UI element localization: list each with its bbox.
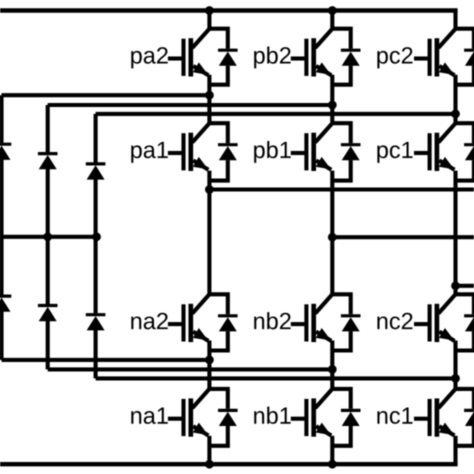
IGBT nc1 [439,389,455,407]
clamp line lower-c [96,376,456,380]
diode Dpb1 (antiparallel) [332,123,350,143]
label pa2 [131,51,142,69]
node: N rail / leg b [328,460,337,469]
diode Dpc1 (antiparallel) [456,123,474,143]
clamp branch 2 lower clamp diode [38,304,58,307]
diode Dpb2 (antiparallel) [332,29,350,49]
diode Dpa2 (antiparallel) [209,29,227,49]
IGBT pa1 [193,123,209,141]
IGBT pb2 [316,29,332,47]
label nb2 [254,316,264,329]
diode Dnb2 (antiparallel) [332,294,350,314]
clamp line lower-a [2,358,210,362]
label nb1 [254,411,264,424]
label nc1 [377,411,387,424]
IGBT pa2 [193,29,209,47]
label pb1 [254,145,265,163]
phase b output line [332,235,474,239]
label na2 [131,316,141,329]
node: phase a out [205,185,214,194]
label pc1 [377,145,388,163]
IGBT nc2 [439,294,455,312]
diode Dpc2 (antiparallel) [456,29,474,49]
IGBT na2 [193,294,209,312]
clamp branch 2 vertical [46,105,50,152]
node: upper mid a [205,91,214,100]
node: lower mid b [328,365,337,374]
node: P rail / leg b [328,6,337,15]
node: phase c out [451,281,460,290]
clamp branch 1 upper clamp diode [0,143,11,146]
node: lower mid c [451,374,460,383]
node: neutral 1 [43,232,52,241]
clamp branch 1 vertical [0,95,4,143]
label nc2 [377,316,387,329]
clamp line upper-a [2,93,210,97]
clamp branch 3 lower clamp diode [86,313,106,316]
top DC rail P [0,8,458,12]
phase c output line [456,284,474,288]
clamp line upper-c [96,112,456,116]
label na1 [131,411,141,424]
IGBT nb2 [316,294,332,312]
bottom DC rail N [0,462,458,466]
node: N rail / leg a [205,460,214,469]
leg a vertical segments [207,11,211,29]
clamp branch 2 upper clamp diode [38,152,58,155]
diode Dnc2 (antiparallel) [456,294,474,314]
node: upper mid b [328,101,337,110]
clamp line lower-b [48,367,333,371]
phase a output line [209,187,474,191]
clamp line upper-b [48,103,333,107]
IGBT nb1 [316,389,332,407]
diode Dna1 (antiparallel) [209,389,227,409]
IGBT pb1 [316,123,332,141]
label pa1 [131,145,142,163]
clamp branch 3 upper clamp diode [86,162,106,165]
neutral bus [0,235,97,239]
IGBT na1 [193,389,209,407]
diode Dna2 (antiparallel) [209,294,227,314]
IGBT pc2 [439,29,455,47]
label pc2 [377,51,388,69]
node: upper mid c [451,110,460,119]
leg c vertical segments [453,11,457,29]
clamp branch 3 vertical [94,114,98,163]
node: phase b out [328,233,337,242]
node: neutral 2 [92,232,101,241]
diode Dnb1 (antiparallel) [332,389,350,409]
node: lower mid a [205,356,214,365]
diode Dpa1 (antiparallel) [209,123,227,143]
IGBT pc1 [439,123,455,141]
clamp branch 1 lower clamp diode [0,295,11,298]
diode Dnc1 (antiparallel) [456,389,474,409]
node: P rail / leg a [205,6,214,15]
label pb2 [254,51,265,69]
leg b vertical segments [330,11,334,29]
